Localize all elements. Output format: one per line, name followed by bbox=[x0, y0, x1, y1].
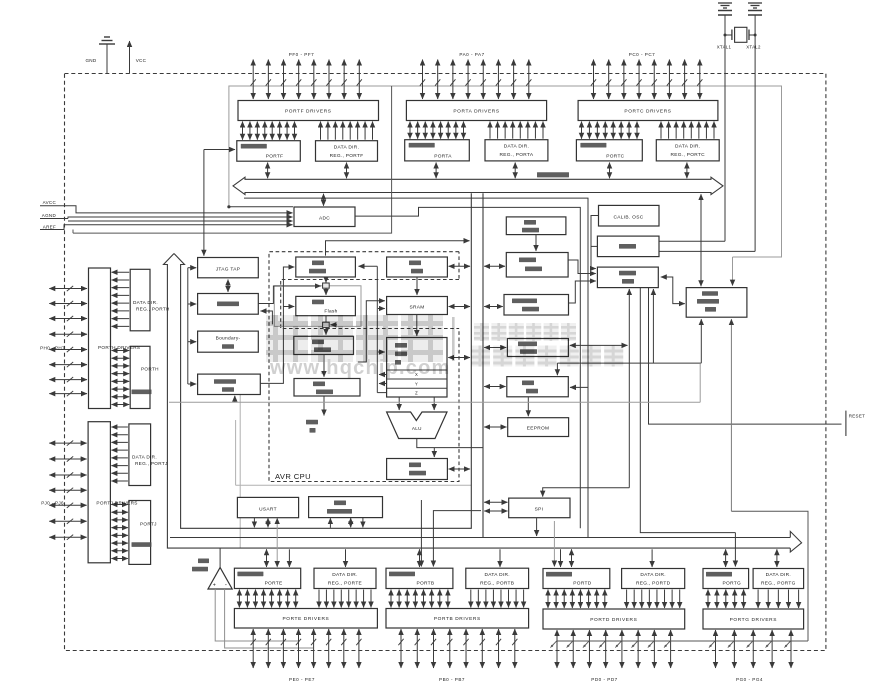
block: DATA DIR. REG. PORTH bbox=[130, 269, 150, 331]
svg-text:AVR CPU: AVR CPU bbox=[275, 472, 311, 481]
wire PC->Flash column with mux squares bbox=[325, 278, 327, 283]
gray USART to PORTE bbox=[276, 518, 278, 567]
block: data register PORTH bbox=[130, 346, 150, 408]
svg-text:GND: GND bbox=[85, 58, 96, 63]
wire ALU output bbox=[417, 439, 483, 448]
svg-text:PORTF: PORTF bbox=[266, 154, 284, 160]
svg-text:+: + bbox=[213, 583, 216, 589]
GND pin symbol bbox=[106, 44, 108, 74]
block: DATA DIR. REG. PORTG bbox=[753, 569, 804, 589]
block: PORTH DRIVERS (tall) bbox=[89, 268, 111, 409]
gray clock distribution down to port bus tap bbox=[730, 319, 732, 511]
wire gray clock line top bbox=[229, 86, 782, 257]
block: general purpose registers bbox=[387, 338, 447, 398]
svg-text:PORTE DRIVERS: PORTE DRIVERS bbox=[282, 616, 329, 622]
junction dot ADC clock bbox=[227, 205, 230, 208]
arrows PORTB registers to drivers bbox=[391, 590, 524, 608]
svg-text:Z: Z bbox=[415, 391, 418, 396]
wire ADC out to timing rail bbox=[355, 207, 580, 528]
svg-text:PORTH DRIVERS: PORTH DRIVERS bbox=[98, 345, 140, 350]
svg-text:DATA DIR.: DATA DIR. bbox=[334, 144, 359, 150]
svg-text:REG., PORTE: REG., PORTE bbox=[328, 580, 362, 586]
comparator inputs from PE pins bbox=[215, 589, 298, 641]
wire bus under-line to interrupt rail bbox=[244, 198, 588, 537]
svg-text:AREF: AREF bbox=[43, 224, 56, 229]
block: PORTB DRIVERS bbox=[386, 609, 529, 629]
wire pin tap line PORTD/PORTG bbox=[557, 640, 808, 642]
svg-text:PORTC: PORTC bbox=[606, 153, 624, 159]
block: DATA DIR. REG. PORTE bbox=[314, 568, 376, 588]
svg-text:-: - bbox=[225, 583, 227, 589]
block: programming logic 程序设计逻辑 bbox=[198, 374, 261, 394]
svg-text:PD0 - PD7: PD0 - PD7 bbox=[591, 677, 617, 682]
block: PORTE DRIVERS bbox=[234, 609, 377, 629]
svg-text:REG., PORTH: REG., PORTH bbox=[136, 306, 170, 311]
block: DATA DIR. REG. PORTD bbox=[622, 569, 685, 589]
block: CALIB. OSC bbox=[599, 205, 660, 226]
wires CALIB/OSC into timing bbox=[591, 216, 599, 269]
svg-text:PORTG: PORTG bbox=[723, 581, 741, 587]
8-bit data bus (top) bbox=[233, 177, 723, 194]
block: PORTG DRIVERS bbox=[703, 609, 804, 629]
svg-text:PORTF DRIVERS: PORTF DRIVERS bbox=[285, 108, 332, 114]
block: clock select/prescaler 时钟选择分频 bbox=[686, 288, 747, 318]
VCC pin arrow bbox=[129, 41, 131, 74]
arrows PORTE registers to drivers bbox=[239, 590, 371, 608]
svg-text:DATA DIR.: DATA DIR. bbox=[332, 572, 357, 578]
wire MCU ctrl to timing bbox=[569, 281, 596, 303]
wires oscillator to XTAL pins bbox=[659, 240, 725, 242]
pin arrows PC0 - PC7 bbox=[591, 60, 703, 100]
arrows PORTA drivers to registers bbox=[410, 122, 543, 139]
wire port tap elbow bbox=[731, 511, 808, 641]
arrow to status register bbox=[433, 448, 435, 457]
wire PC to register-file rail bbox=[376, 266, 378, 392]
block: PORTA DRIVERS bbox=[406, 101, 546, 121]
wire programming logic to flash bbox=[261, 267, 295, 383]
svg-text:XTAL2: XTAL2 bbox=[746, 45, 761, 50]
svg-text:PORTJ DRIVERS: PORTJ DRIVERS bbox=[96, 501, 137, 506]
block: DATA DIR. REG. PORTF bbox=[316, 141, 378, 162]
taps to PORTD/PORTG pins bbox=[550, 641, 791, 648]
arrow rail to interrupt unit bbox=[570, 386, 588, 388]
block: DATA DIR. REG. PORTJ bbox=[129, 424, 151, 486]
svg-text:XTAL1: XTAL1 bbox=[717, 45, 732, 50]
svg-text:EEPROM: EEPROM bbox=[527, 426, 550, 432]
pin arrows PG0 - PG4 bbox=[716, 630, 792, 668]
wire rail PC to data bus bbox=[326, 241, 470, 256]
svg-text:PF0 - PF7: PF0 - PF7 bbox=[289, 52, 314, 57]
arrow into flash mux from debug bbox=[259, 286, 321, 304]
svg-text:PORTJ: PORTJ bbox=[140, 521, 157, 526]
outer chip dashed border bbox=[65, 74, 826, 651]
arrow into on-chip debug bbox=[261, 311, 273, 324]
svg-text:PG0 - PG4: PG0 - PG4 bbox=[736, 677, 763, 682]
block: DATA DIR. REG. PORTC bbox=[656, 140, 719, 161]
gray group outline around CPU bbox=[235, 420, 237, 485]
svg-text:DATA DIR.: DATA DIR. bbox=[504, 143, 529, 149]
arrows bus rail to peripheral boxes bbox=[484, 266, 507, 511]
svg-text:PORTH: PORTH bbox=[141, 367, 159, 372]
arrows PORTG registers to drivers bbox=[708, 590, 799, 609]
XTAL1 capacitor + ground bbox=[718, 2, 732, 4]
arrows PORTD registers to drivers bbox=[548, 590, 680, 609]
wire TWI to PORTB register bbox=[420, 500, 422, 567]
svg-text:REG., PORTG: REG., PORTG bbox=[761, 581, 796, 587]
wire PORTF reg to JTAG TAP bbox=[204, 149, 235, 151]
block: instruction decoder 指令译码器 bbox=[294, 379, 360, 397]
arrow internal osc to watchdog bbox=[535, 235, 537, 251]
block: SRAM bbox=[387, 297, 448, 315]
block: PORTJ DRIVERS (tall) bbox=[88, 422, 110, 563]
svg-text:VCC: VCC bbox=[136, 58, 147, 63]
arrow JTAG TAP / debug bbox=[227, 280, 229, 293]
pin arrows PB0 - PB7 bbox=[398, 629, 517, 668]
arrow timer/counters long bus bbox=[570, 344, 628, 346]
AVR CPU dashed box bbox=[269, 252, 459, 482]
arrows PORTF drivers to registers bbox=[243, 122, 373, 140]
svg-text:PORTB DRIVERS: PORTB DRIVERS bbox=[434, 616, 481, 622]
svg-text:PE0 - PE7: PE0 - PE7 bbox=[289, 677, 315, 682]
gray clock line to CPU bbox=[169, 401, 700, 403]
block: data register PORTD bbox=[543, 569, 610, 589]
gray programming loop around flash bbox=[274, 286, 361, 327]
block: timing and control 时序与控制 bbox=[597, 267, 658, 288]
wire interrupt/clock net bbox=[556, 363, 558, 375]
crystal bbox=[735, 27, 747, 42]
svg-text:PJ0 - PJ6: PJ0 - PJ6 bbox=[41, 500, 64, 505]
svg-text:PC0 - PC7: PC0 - PC7 bbox=[629, 52, 655, 57]
svg-text:ADC: ADC bbox=[319, 216, 330, 222]
wire AREF to top rail bbox=[73, 86, 392, 233]
block: watchdog timer 看门狗定时器 bbox=[506, 253, 568, 278]
block: MCU control register MCU控制寄存器 bbox=[504, 295, 569, 316]
svg-text:PORTE: PORTE bbox=[265, 581, 283, 587]
arrow instr reg to decoder bbox=[323, 355, 325, 377]
svg-text:PORTB: PORTB bbox=[416, 581, 434, 587]
block: interrupt unit 中断单元 bbox=[507, 377, 569, 397]
block: PORTF DRIVERS bbox=[238, 101, 379, 121]
pin arrows PJ0 - PJ6 bbox=[49, 441, 86, 540]
block: data register PORTE bbox=[234, 568, 300, 588]
block: stack pointer 堆栈指针 bbox=[387, 257, 448, 277]
gray SPI to PORTD register bbox=[553, 521, 555, 567]
arrows PORTJ driver-registers bbox=[111, 427, 128, 559]
svg-text:Flash: Flash bbox=[324, 308, 337, 314]
svg-text:REG., PORTC: REG., PORTC bbox=[671, 152, 706, 158]
block: data register PORTA bbox=[405, 140, 470, 161]
svg-text:REG., PORTA: REG., PORTA bbox=[500, 152, 534, 158]
svg-text:Y: Y bbox=[415, 381, 418, 386]
wire timing to interrupt net bbox=[652, 289, 654, 363]
arrows register file to ALU bbox=[398, 398, 400, 411]
svg-text:www.hqchip.com: www.hqchip.com bbox=[269, 357, 451, 379]
block: data register PORTG bbox=[703, 569, 749, 589]
svg-text:SRAM: SRAM bbox=[409, 304, 424, 310]
block: on-chip debug 片上调试 bbox=[198, 294, 259, 315]
svg-text:DATA DIR.: DATA DIR. bbox=[675, 143, 700, 149]
block: PORTD DRIVERS bbox=[543, 609, 685, 629]
svg-text:DATA DIR.: DATA DIR. bbox=[766, 572, 791, 578]
arrows CPU boxes to bus rails bbox=[448, 266, 470, 469]
block: data register PORTJ bbox=[129, 501, 151, 565]
svg-text:Boundary-: Boundary- bbox=[216, 336, 241, 342]
arrows TWI to bus bbox=[329, 518, 331, 528]
block: data register PORTB bbox=[386, 568, 453, 588]
wire watchdog to timing bbox=[568, 260, 595, 274]
block: USART bbox=[237, 497, 298, 517]
arrow bus to clock mux bbox=[700, 194, 702, 286]
svg-text:PORTD DRIVERS: PORTD DRIVERS bbox=[590, 617, 637, 623]
arrows PORTC drivers to registers bbox=[582, 122, 715, 139]
pin arrows PE0 - PE7 bbox=[251, 629, 362, 668]
pin arrows PF0 - PF7 bbox=[251, 60, 362, 100]
arrows PORTH driver-registers bbox=[112, 272, 130, 404]
svg-text:PORTD: PORTD bbox=[573, 581, 591, 587]
block: data register PORTF bbox=[237, 141, 300, 162]
block: DATA DIR. REG. PORTB bbox=[466, 568, 529, 588]
block: program counter 程序计数器 bbox=[296, 257, 356, 277]
svg-text:SPI: SPI bbox=[535, 507, 544, 513]
arrow clock to programming logic bbox=[234, 396, 236, 403]
block: Boundary-scan bbox=[198, 331, 259, 352]
svg-text:USART: USART bbox=[259, 506, 277, 512]
RESET wire bbox=[649, 288, 842, 425]
arrow interrupt unit to EEPROM bbox=[527, 397, 529, 416]
svg-text:REG., PORTB: REG., PORTB bbox=[480, 580, 514, 586]
svg-text:PORTA DRIVERS: PORTA DRIVERS bbox=[453, 108, 499, 114]
block: data register PORTC bbox=[576, 140, 642, 161]
arrow SRAM to register file bbox=[416, 315, 418, 336]
block: internal oscillator 内部振荡器 bbox=[506, 217, 566, 235]
block: instruction register 指令寄存器 bbox=[294, 336, 354, 354]
block: oscillator 振荡器 bbox=[597, 236, 659, 257]
wires timing ctrl outputs down bbox=[628, 289, 630, 488]
arrows USART to bus bbox=[253, 518, 255, 527]
svg-text:PORTC DRIVERS: PORTC DRIVERS bbox=[624, 108, 671, 114]
memory dashed box bbox=[281, 280, 459, 329]
XTAL2 capacitor + ground bbox=[748, 2, 762, 4]
block: EEPROM bbox=[508, 418, 569, 437]
block: JTAG TAP bbox=[198, 258, 259, 278]
svg-text:AVCC: AVCC bbox=[43, 200, 57, 205]
block: PORTC DRIVERS bbox=[578, 101, 718, 121]
svg-text:DATA DIR.: DATA DIR. bbox=[640, 572, 665, 578]
svg-text:REG., PORTD: REG., PORTD bbox=[636, 581, 671, 587]
arrows top registers to bus bbox=[268, 163, 687, 179]
svg-text:RESET: RESET bbox=[849, 414, 866, 419]
block: timer/counters 定时器/计数器 bbox=[507, 339, 568, 357]
svg-text:JTAG TAP: JTAG TAP bbox=[216, 266, 241, 272]
pin arrows PD0 - PD7 bbox=[557, 630, 671, 668]
ALU bbox=[387, 412, 447, 439]
bottom data bus right arrowhead bbox=[790, 531, 801, 552]
arrow bus to ADC bbox=[323, 194, 325, 206]
pin arrows PA0 - PA7 bbox=[420, 60, 532, 100]
Z connector timing<->clockmux bbox=[661, 277, 685, 304]
block: program flash 程序Flash bbox=[296, 296, 356, 315]
svg-text:CALIB. OSC: CALIB. OSC bbox=[614, 214, 644, 220]
svg-text:DATA DIR.: DATA DIR. bbox=[132, 455, 157, 460]
block: status register 状态寄存器 bbox=[387, 459, 448, 480]
svg-text:REG., PORTF: REG., PORTF bbox=[330, 153, 364, 159]
wire instruction reg to SRAM address bbox=[358, 301, 385, 362]
control lines arrow 控制线 bbox=[323, 397, 325, 416]
svg-text:PA0 - PA7: PA0 - PA7 bbox=[459, 52, 484, 57]
svg-text:PORTA: PORTA bbox=[434, 153, 452, 159]
arrows rail to SRAM / register file bbox=[378, 308, 385, 310]
comparator output bbox=[219, 549, 221, 568]
svg-text:AGND: AGND bbox=[42, 213, 57, 218]
arrows bus to bottom registers bbox=[267, 549, 777, 567]
svg-text:PB0 - PB7: PB0 - PB7 bbox=[439, 677, 465, 682]
wire JTAG column rail bbox=[187, 268, 189, 384]
block: ADC bbox=[294, 207, 355, 227]
svg-text:PORTG DRIVERS: PORTG DRIVERS bbox=[730, 617, 777, 623]
block: SPI bbox=[509, 498, 570, 518]
big vertical bus arrow (left) bbox=[164, 193, 791, 548]
svg-text:ALU: ALU bbox=[412, 426, 422, 431]
svg-text:REG., PORTJ: REG., PORTJ bbox=[135, 461, 168, 466]
arrow stack pointer to SRAM bbox=[416, 278, 418, 296]
pin arrows PH0 - PH7 bbox=[49, 286, 87, 396]
svg-text:PH0 - PH7: PH0 - PH7 bbox=[40, 346, 65, 351]
watermark 华强芯城 www.hqchip.com bbox=[266, 315, 623, 379]
label 8位数据总线 bbox=[537, 172, 569, 177]
analog comparator 模拟比较器 bbox=[198, 559, 209, 564]
svg-text:DATA DIR.: DATA DIR. bbox=[484, 572, 509, 578]
block: DATA DIR. REG. PORTA bbox=[485, 140, 548, 161]
svg-text:DATA DIR.: DATA DIR. bbox=[133, 300, 158, 305]
block: two-wire serial interface 两线串行接口 bbox=[309, 497, 383, 518]
arrow SPI to bus bbox=[536, 518, 538, 536]
